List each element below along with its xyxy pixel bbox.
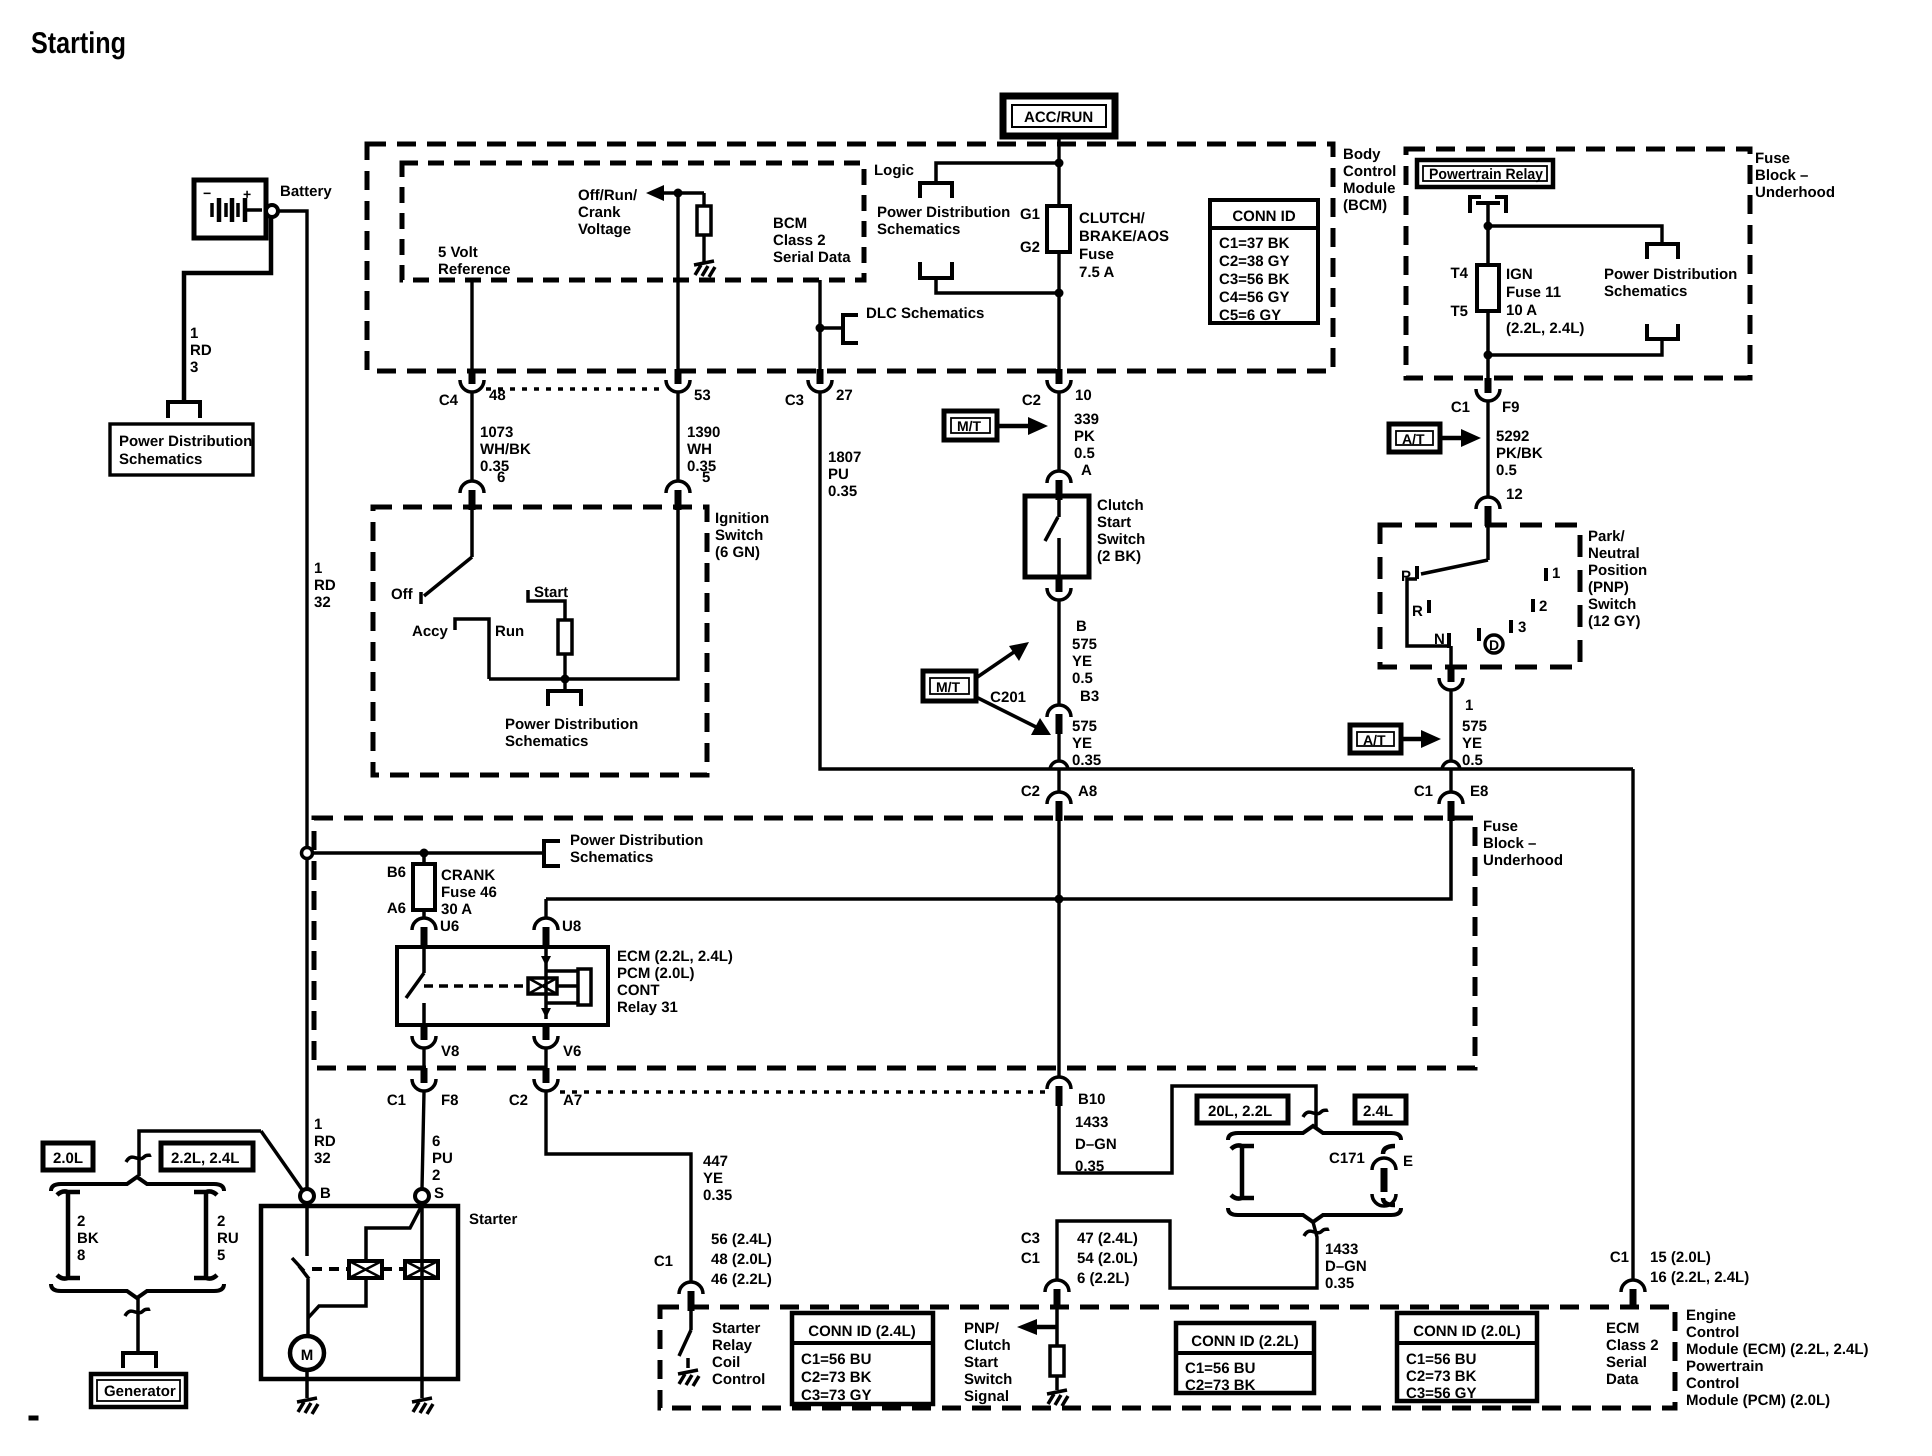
- arrow A/T lower: [1401, 730, 1441, 748]
- bracket C171 left: [1231, 1145, 1254, 1198]
- svg-text:(BCM): (BCM): [1343, 197, 1387, 214]
- svg-text:Powertrain Relay: Powertrain Relay: [1429, 166, 1544, 183]
- brace C171 bottom: [1228, 1208, 1401, 1222]
- label C3 C1 (47): [1021, 1230, 1040, 1267]
- label Body Control Module (BCM): [1343, 146, 1396, 214]
- box CONN ID (2.4L): [792, 1313, 933, 1404]
- svg-text:M/T: M/T: [936, 679, 961, 695]
- resistor ignition start: [558, 620, 572, 679]
- node battery wire tap: [302, 848, 313, 859]
- arrow M/T upper: [997, 417, 1048, 435]
- off-page bracket powertrain lower: [1647, 324, 1678, 339]
- svg-text:C2=73 BK: C2=73 BK: [801, 1369, 872, 1386]
- solenoid winding hold-in: [405, 1261, 438, 1278]
- box A/T upper: [1389, 424, 1440, 452]
- svg-text:Block –: Block –: [1755, 167, 1808, 184]
- brace C171 top: [1228, 1126, 1401, 1140]
- svg-text:B: B: [320, 1185, 331, 1202]
- box 2.4L: [1355, 1096, 1406, 1123]
- label C3 27: [785, 387, 853, 409]
- svg-text:Control: Control: [1686, 1375, 1739, 1392]
- stray mark bottom left: [29, 1416, 38, 1420]
- svg-text:(2.2L, 2.4L): (2.2L, 2.4L): [1506, 320, 1584, 337]
- ground starter solenoid: [412, 1398, 433, 1414]
- dashed box Body Control Module: [367, 144, 1333, 371]
- relay contact symbol: [1470, 197, 1506, 226]
- label 6 PU 2 S: [432, 1133, 453, 1202]
- svg-text:P: P: [1401, 568, 1411, 585]
- terminal S starter: [415, 1189, 429, 1203]
- label CRANK Fuse 46 30 A: [441, 867, 497, 918]
- svg-text:339: 339: [1074, 411, 1099, 428]
- svg-text:2.4L: 2.4L: [1363, 1103, 1393, 1120]
- label CLUTCH/BRAKE/AOS Fuse 7.5 A: [1079, 210, 1169, 281]
- wire DLC stub: [820, 326, 843, 330]
- svg-text:CONN ID (2.4L): CONN ID (2.4L): [808, 1323, 916, 1340]
- box ACC/RUN: [1003, 96, 1115, 136]
- box 2.0L: [43, 1143, 93, 1170]
- contact 1: [1546, 565, 1560, 582]
- wire E8 to relay feed: [546, 821, 1451, 899]
- svg-text:Schematics: Schematics: [877, 221, 960, 238]
- label Power Distribution Schematics (crank): [570, 832, 703, 866]
- svg-text:M/T: M/T: [957, 418, 982, 434]
- svg-text:ECM (2.2L, 2.4L): ECM (2.2L, 2.4L): [617, 948, 733, 965]
- svg-text:S: S: [434, 1185, 444, 1202]
- svg-text:Power Distribution: Power Distribution: [505, 716, 638, 733]
- svg-text:Fuse: Fuse: [1079, 246, 1114, 263]
- label P: [1401, 568, 1411, 585]
- svg-text:Reference: Reference: [438, 261, 511, 278]
- label 1 RD 3: [190, 325, 212, 376]
- svg-text:10: 10: [1075, 387, 1092, 404]
- svg-text:A/T: A/T: [1402, 431, 1425, 447]
- dotted connector line C2: [560, 1090, 1045, 1094]
- label Power Distribution Schematics (BCM): [877, 204, 1010, 238]
- wire diagonal to starter B: [261, 1131, 303, 1191]
- svg-text:10 A: 10 A: [1506, 302, 1537, 319]
- label C1 E8: [1414, 783, 1489, 800]
- svg-text:Control: Control: [1686, 1324, 1739, 1341]
- svg-text:3: 3: [190, 359, 198, 376]
- svg-text:C4: C4: [439, 392, 459, 409]
- clutch start switch: [1025, 496, 1089, 577]
- label Logic: [874, 162, 914, 179]
- svg-text:5: 5: [702, 469, 710, 486]
- svg-text:1073: 1073: [480, 424, 513, 441]
- svg-text:B10: B10: [1078, 1091, 1106, 1108]
- svg-text:(12 GY): (12 GY): [1588, 613, 1641, 630]
- wire off-page return to fuse: [1488, 339, 1662, 355]
- svg-text:32: 32: [314, 594, 331, 611]
- svg-text:Power Distribution: Power Distribution: [877, 204, 1010, 221]
- svg-text:0.5: 0.5: [1496, 462, 1517, 479]
- label 575 YE 0.5 (A/T): [1462, 718, 1487, 769]
- svg-text:Clutch: Clutch: [1097, 497, 1144, 514]
- relay 31 actuation dashed: [424, 978, 578, 994]
- svg-text:0.35: 0.35: [703, 1187, 732, 1204]
- arrow M/T to 575 upper: [976, 642, 1029, 678]
- svg-text:6: 6: [497, 469, 505, 486]
- svg-text:C201: C201: [990, 689, 1026, 706]
- off-page bracket ignition: [548, 691, 581, 706]
- svg-text:Fuse 46: Fuse 46: [441, 884, 497, 901]
- box 20L, 2.2L: [1197, 1096, 1288, 1123]
- dotted connector line C4: [486, 387, 664, 391]
- svg-text:RD: RD: [314, 577, 336, 594]
- svg-text:C1: C1: [1414, 783, 1433, 800]
- wire ignition feed: [470, 509, 474, 557]
- svg-text:Control: Control: [712, 1371, 765, 1388]
- box Generator: [91, 1374, 186, 1407]
- svg-text:Relay 31: Relay 31: [617, 999, 678, 1016]
- svg-text:1433: 1433: [1325, 1241, 1358, 1258]
- dashed box Ignition Switch: [373, 507, 707, 775]
- wire V8 to C1 F8: [422, 1049, 425, 1068]
- svg-text:Class 2: Class 2: [1606, 1337, 1659, 1354]
- wire C171 to C1 47: [1057, 1221, 1317, 1288]
- battery G1: [194, 180, 266, 238]
- label Engine Control Module ECM PCM: [1686, 1307, 1869, 1409]
- svg-text:Clutch: Clutch: [964, 1337, 1011, 1354]
- label T4 T5: [1450, 265, 1468, 320]
- svg-text:C3: C3: [785, 392, 804, 409]
- svg-text:Start: Start: [534, 584, 568, 601]
- contact Off: [419, 592, 423, 604]
- svg-text:15 (2.0L): 15 (2.0L): [1650, 1249, 1711, 1266]
- wire 575 YE 0.5 AT: [1449, 691, 1452, 762]
- svg-text:7.5 A: 7.5 A: [1079, 264, 1114, 281]
- svg-text:BCM: BCM: [773, 215, 807, 232]
- box CONN ID (2.0L): [1397, 1313, 1537, 1402]
- wire generator lead: [136, 1298, 140, 1352]
- svg-text:0.35: 0.35: [1072, 752, 1101, 769]
- svg-text:D: D: [1489, 637, 1499, 653]
- wire off/run/crank to ignition: [676, 193, 679, 369]
- svg-text:Schematics: Schematics: [119, 451, 202, 468]
- svg-text:Starter: Starter: [469, 1211, 518, 1228]
- dashed box engine control modules: [660, 1307, 1675, 1408]
- ground PNP signal: [1047, 1390, 1068, 1406]
- connector C2 pin 10: [1047, 369, 1071, 392]
- svg-text:1: 1: [1465, 697, 1473, 714]
- svg-text:YE: YE: [1072, 735, 1092, 752]
- label ECM PCM CONT Relay 31: [617, 948, 733, 1016]
- connector C1 447: [679, 1282, 703, 1311]
- svg-text:C3=56 GY: C3=56 GY: [1406, 1385, 1476, 1402]
- svg-text:C171: C171: [1329, 1150, 1365, 1167]
- label 2 RU 5: [217, 1213, 239, 1264]
- svg-text:N: N: [1434, 631, 1445, 648]
- resistor BCM pull-up: [697, 193, 711, 262]
- label R: [1412, 603, 1423, 620]
- svg-text:C3: C3: [1021, 1230, 1040, 1247]
- svg-text:46 (2.2L): 46 (2.2L): [711, 1271, 772, 1288]
- svg-text:Powertrain: Powertrain: [1686, 1358, 1764, 1375]
- box M/T lower: [923, 671, 976, 701]
- svg-text:53: 53: [694, 387, 711, 404]
- svg-text:575: 575: [1072, 636, 1097, 653]
- label 53: [694, 387, 711, 404]
- label V6: [563, 1043, 581, 1060]
- box CONN ID (2.2L): [1176, 1323, 1314, 1394]
- svg-text:1807: 1807: [828, 449, 861, 466]
- wire logic branch: [936, 163, 1059, 183]
- svg-text:DLC Schematics: DLC Schematics: [866, 305, 984, 322]
- label G1 G2: [1020, 206, 1040, 256]
- svg-text:1: 1: [1552, 565, 1560, 582]
- svg-text:C2=73 BK: C2=73 BK: [1185, 1377, 1256, 1394]
- label 339 PK 0.5 A: [1074, 411, 1099, 479]
- svg-text:Accy: Accy: [412, 623, 449, 640]
- connector C4 pin 53: [666, 369, 690, 392]
- label Run: [495, 623, 524, 640]
- node ACC/RUN junction lower: [1055, 289, 1064, 298]
- battery positive terminal node: [266, 205, 278, 217]
- ground starter relay coil control: [678, 1370, 699, 1386]
- svg-text:30 A: 30 A: [441, 901, 472, 918]
- svg-text:Class 2: Class 2: [773, 232, 826, 249]
- off-page bracket logic: [920, 183, 952, 198]
- label 2 BK 8: [77, 1213, 99, 1264]
- hop PNP wire over 1807: [1442, 761, 1460, 770]
- svg-text:Engine: Engine: [1686, 1307, 1736, 1324]
- wire ACC/RUN to fuse: [1057, 136, 1060, 206]
- label 1 (pin): [1465, 697, 1473, 714]
- connector C1 47: [1045, 1280, 1069, 1309]
- svg-text:Module (ECM) (2.2L, 2.4L): Module (ECM) (2.2L, 2.4L): [1686, 1341, 1869, 1358]
- wire clutch signal down: [1057, 821, 1060, 1077]
- dashed box Fuse Block Underhood (main): [314, 818, 1475, 1068]
- svg-text:YE: YE: [703, 1170, 723, 1187]
- svg-text:3: 3: [1518, 619, 1526, 636]
- fuse IGN Fuse 11: [1477, 226, 1499, 378]
- svg-text:B6: B6: [387, 864, 406, 881]
- wire BCM class 2 serial data: [818, 280, 821, 369]
- label C1 (ECM serial): [1610, 1249, 1629, 1266]
- svg-text:C1=56 BU: C1=56 BU: [1185, 1360, 1255, 1377]
- splice symbol below C171: [1304, 1229, 1329, 1236]
- label 47 54 6: [1077, 1230, 1138, 1287]
- svg-text:C2: C2: [1021, 783, 1040, 800]
- motor M: [290, 1336, 324, 1370]
- label 1 RD 32 (lower): [314, 1116, 336, 1167]
- svg-text:RD: RD: [190, 342, 212, 359]
- svg-text:C2: C2: [509, 1092, 528, 1109]
- svg-text:PNP/: PNP/: [964, 1320, 1000, 1337]
- svg-text:16 (2.2L, 2.4L): 16 (2.2L, 2.4L): [1650, 1269, 1749, 1286]
- box CONN ID (BCM): [1210, 200, 1318, 324]
- starter pull-in winding path: [308, 1207, 421, 1318]
- svg-text:A/T: A/T: [1363, 732, 1386, 748]
- solenoid winding pull-in: [349, 1261, 382, 1278]
- svg-text:Underhood: Underhood: [1755, 184, 1835, 201]
- label Accy: [412, 623, 449, 640]
- label IGN Fuse 11 10 A (2.2L, 2.4L): [1506, 266, 1584, 337]
- label N: [1434, 631, 1445, 648]
- svg-text:D–GN: D–GN: [1325, 1258, 1367, 1275]
- svg-text:PK: PK: [1074, 428, 1095, 445]
- off-page bracket DLC: [843, 315, 858, 343]
- svg-text:C3=56 BK: C3=56 BK: [1219, 271, 1290, 288]
- connector C201: [1047, 705, 1071, 734]
- wire ECM class 2 serial data right: [1631, 769, 1634, 1280]
- wire C2 to clutch switch: [1057, 393, 1060, 471]
- off-page bracket crank feed: [544, 841, 560, 866]
- label 1390 WH 0.35 5: [687, 424, 720, 486]
- label Off/Run/Crank Voltage: [578, 187, 638, 238]
- off-page bracket to power distribution: [168, 402, 200, 418]
- svg-text:Switch: Switch: [715, 527, 763, 544]
- wire crank fuse feed: [313, 851, 544, 855]
- connector PNP pin 12: [1476, 497, 1500, 526]
- contact D circled: [1479, 628, 1503, 653]
- svg-text:48 (2.0L): 48 (2.0L): [711, 1251, 772, 1268]
- starter solenoid switch: [292, 1203, 309, 1336]
- ground starter motor: [297, 1398, 318, 1414]
- box Starter: [261, 1206, 458, 1379]
- hop clutch wire over 1807: [1050, 761, 1068, 770]
- wire battery to PDS reference: [184, 217, 271, 401]
- arrow M/T to 575 lower: [976, 697, 1051, 735]
- splice symbol B10 path: [1303, 1110, 1328, 1117]
- wire junction to bracket: [563, 679, 566, 691]
- PNP switch arm and P contact: [1407, 525, 1488, 667]
- contact Accy and wire: [455, 619, 489, 679]
- connector C4 pin 48: [460, 369, 484, 392]
- connector clutch switch pin B: [1047, 577, 1071, 600]
- svg-text:2.2L, 2.4L: 2.2L, 2.4L: [171, 1150, 239, 1167]
- svg-text:Off/Run/: Off/Run/: [578, 187, 638, 204]
- terminal B starter: [300, 1189, 314, 1203]
- label 1433 D-GN 0.35 (C171): [1325, 1241, 1367, 1292]
- label Ignition Switch (6 GN): [715, 510, 769, 561]
- svg-text:G1: G1: [1020, 206, 1040, 223]
- svg-text:Module: Module: [1343, 180, 1396, 197]
- svg-text:Switch: Switch: [964, 1371, 1012, 1388]
- svg-text:IGN: IGN: [1506, 266, 1533, 283]
- node fuse lower junction: [1484, 351, 1493, 360]
- svg-text:A: A: [1081, 462, 1092, 479]
- label B10 1433 D-GN 0.35: [1075, 1091, 1117, 1175]
- svg-text:Start: Start: [1097, 514, 1131, 531]
- connector V8: [412, 1025, 436, 1048]
- connector C1 E8: [1439, 792, 1463, 821]
- svg-text:C1: C1: [387, 1092, 406, 1109]
- box Powertrain Relay label: [1417, 160, 1553, 187]
- label Park/Neutral Position (PNP) Switch (12 GY): [1588, 528, 1647, 630]
- wire U8 drop: [544, 899, 547, 918]
- svg-text:Serial: Serial: [1606, 1354, 1647, 1371]
- node crank fuse tap: [420, 849, 429, 858]
- fuse CLUTCH/BRAKE/AOS: [1047, 206, 1070, 369]
- svg-text:Signal: Signal: [964, 1388, 1009, 1405]
- svg-text:RD: RD: [314, 1133, 336, 1150]
- label 575 YE 0.35: [1072, 718, 1101, 769]
- label PNP/Clutch Start Switch Signal: [964, 1320, 1012, 1405]
- node clutch feed junction: [1055, 895, 1064, 904]
- svg-text:Fuse 11: Fuse 11: [1506, 284, 1561, 301]
- svg-text:C1: C1: [1451, 399, 1470, 416]
- svg-text:Serial Data: Serial Data: [773, 249, 851, 266]
- connector C171 E: [1372, 1146, 1396, 1206]
- svg-text:Relay: Relay: [712, 1337, 753, 1354]
- label 1 RD 32 (upper): [314, 560, 336, 611]
- label B 575 YE 0.5 B3: [1072, 618, 1099, 705]
- wire to C1 E8: [1449, 770, 1452, 792]
- svg-text:12: 12: [1506, 486, 1523, 503]
- svg-text:V8: V8: [441, 1043, 459, 1060]
- splice symbol generator top: [126, 1155, 151, 1162]
- svg-text:C1: C1: [1610, 1249, 1629, 1266]
- svg-text:C1: C1: [654, 1253, 673, 1270]
- svg-text:R: R: [1412, 603, 1423, 620]
- svg-text:(PNP): (PNP): [1588, 579, 1629, 596]
- svg-text:E: E: [1403, 1153, 1413, 1170]
- svg-text:Power Distribution: Power Distribution: [570, 832, 703, 849]
- label Off: [391, 586, 414, 603]
- svg-text:Coil: Coil: [712, 1354, 740, 1371]
- svg-text:47 (2.4L): 47 (2.4L): [1077, 1230, 1138, 1247]
- label B6 A6: [387, 864, 406, 917]
- svg-text:Switch: Switch: [1588, 596, 1636, 613]
- svg-text:−: −: [203, 185, 211, 201]
- svg-text:B3: B3: [1080, 688, 1099, 705]
- wire 447 YE: [546, 1092, 691, 1282]
- label B (starter): [320, 1185, 331, 1202]
- connector C1 F9: [1476, 378, 1500, 401]
- svg-text:C2: C2: [1022, 392, 1041, 409]
- connector B10: [1047, 1077, 1071, 1106]
- svg-text:C1=37 BK: C1=37 BK: [1219, 235, 1290, 252]
- arrow A/T upper: [1440, 429, 1481, 447]
- box A/T lower: [1350, 725, 1401, 753]
- starter actuation dashed: [312, 1267, 405, 1271]
- svg-text:32: 32: [314, 1150, 331, 1167]
- svg-text:1: 1: [314, 1116, 322, 1133]
- svg-text:Crank: Crank: [578, 204, 621, 221]
- svg-text:6: 6: [432, 1133, 440, 1150]
- wire 1807 PU: [820, 393, 1633, 769]
- svg-text:6 (2.2L): 6 (2.2L): [1077, 1270, 1130, 1287]
- box M/T upper: [944, 411, 997, 440]
- svg-text:Generator: Generator: [104, 1383, 176, 1400]
- wire 1390 WH: [676, 393, 679, 481]
- contact 2: [1533, 598, 1547, 615]
- svg-text:CLUTCH/: CLUTCH/: [1079, 210, 1146, 227]
- svg-text:Fuse: Fuse: [1755, 150, 1790, 167]
- label Starter: [469, 1211, 518, 1228]
- svg-text:PCM (2.0L): PCM (2.0L): [617, 965, 695, 982]
- svg-text:Data: Data: [1606, 1371, 1639, 1388]
- svg-text:0.5: 0.5: [1074, 445, 1095, 462]
- svg-text:0.5: 0.5: [1072, 670, 1093, 687]
- svg-text:WH: WH: [687, 441, 712, 458]
- wire to C2 A8: [1057, 770, 1060, 792]
- label 5 Volt Reference: [438, 244, 511, 278]
- svg-text:U6: U6: [440, 918, 459, 935]
- svg-text:Control: Control: [1343, 163, 1396, 180]
- wire motor to ground: [305, 1370, 309, 1398]
- svg-text:Run: Run: [495, 623, 524, 640]
- svg-text:2: 2: [77, 1213, 85, 1230]
- label C201: [990, 689, 1026, 706]
- label C1 (447): [654, 1253, 673, 1270]
- svg-text:54 (2.0L): 54 (2.0L): [1077, 1250, 1138, 1267]
- brace generator bottom: [51, 1284, 224, 1298]
- arrow PNP clutch signal: [1017, 1319, 1057, 1335]
- label U8: [562, 918, 581, 935]
